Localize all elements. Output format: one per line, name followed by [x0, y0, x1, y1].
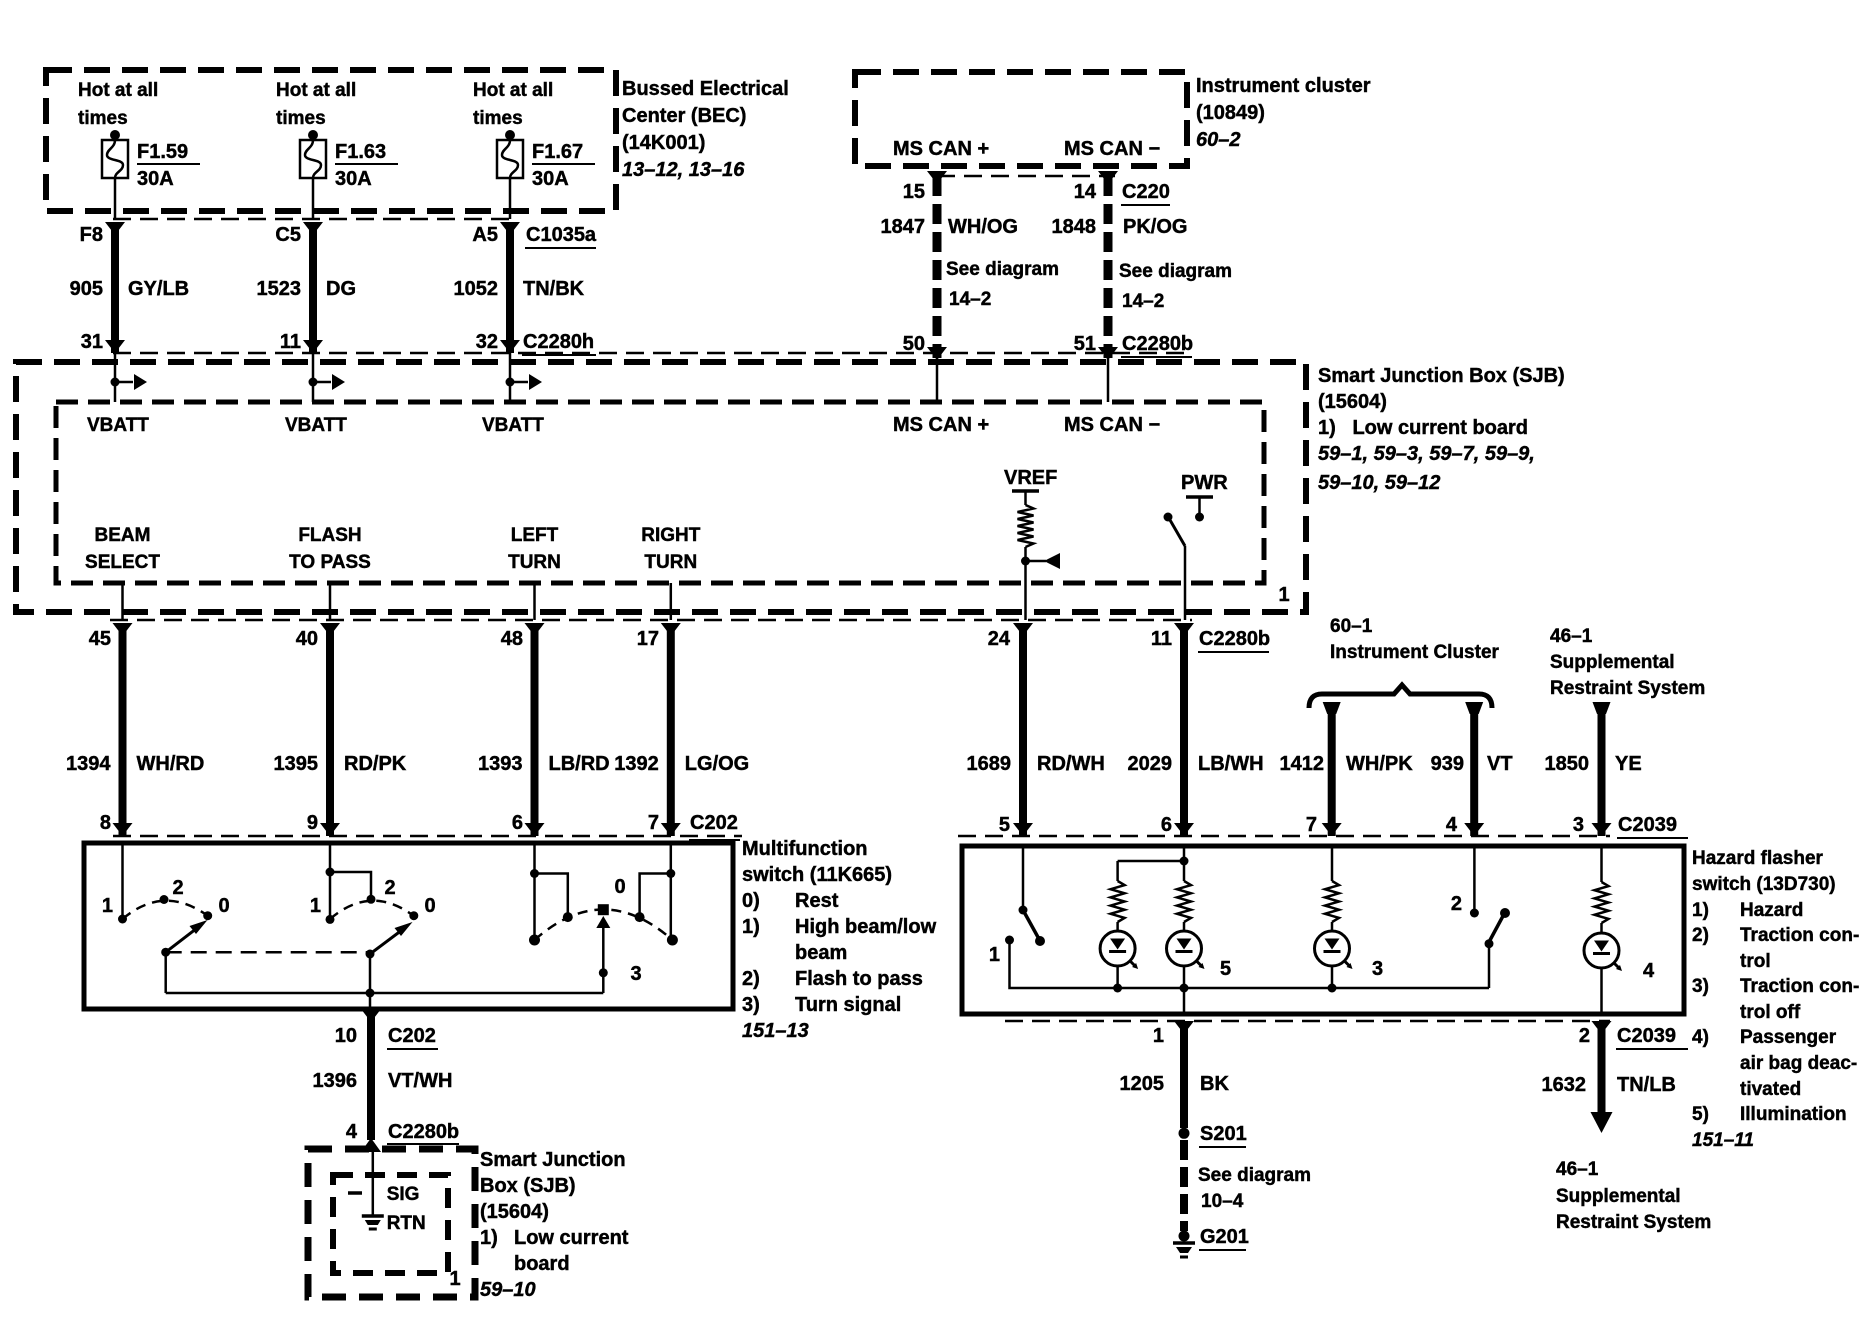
wire 1847 WH/OG (MS CAN +): [927, 171, 947, 360]
svg-text:(15604): (15604): [480, 1201, 549, 1223]
svg-text:24: 24: [988, 628, 1011, 650]
annotation 60-1 Instrument Cluster: [1330, 616, 1500, 663]
svg-text:switch (11K665): switch (11K665): [742, 864, 892, 886]
svg-text:1412: 1412: [1280, 753, 1325, 775]
svg-text:2029: 2029: [1128, 753, 1173, 775]
wire lamp 5 down to pin 1: [1183, 988, 1186, 1014]
wire 1396 VT/WH pin 10: [361, 1009, 381, 1152]
svg-text:50: 50: [903, 333, 925, 355]
wire 1689 RD/WH: [1013, 623, 1033, 836]
resistor (lamp 4): [1595, 882, 1609, 923]
svg-text:times: times: [78, 108, 128, 129]
svg-text:1052: 1052: [454, 278, 499, 300]
annotation 46-1 Supplemental Restraint System (top): [1550, 626, 1705, 699]
label connector C220: [1121, 181, 1170, 205]
svg-text:C2280h: C2280h: [523, 331, 594, 353]
label F1.67 30A value: [532, 141, 595, 190]
label LEFT TURN: [508, 525, 561, 573]
note See diagram 10-4: [1198, 1165, 1311, 1212]
common rail wire (multifunction): [166, 992, 604, 995]
svg-text:(10849): (10849): [1196, 102, 1265, 124]
Hazard flasher switch (13D730) box: [962, 846, 1684, 1014]
annotation Multifunction switch (11K665): [742, 838, 937, 1042]
svg-text:TN/LB: TN/LB: [1617, 1074, 1676, 1096]
blade (hazard switch): [1023, 910, 1045, 946]
svg-text:Instrument Cluster: Instrument Cluster: [1330, 642, 1500, 663]
wire S201 to G201 (shared ground): [1180, 1140, 1188, 1231]
svg-text:1523: 1523: [257, 278, 302, 300]
svg-text:1): 1): [1692, 900, 1709, 921]
svg-text:10–4: 10–4: [1201, 1191, 1244, 1212]
svg-text:Hot at all: Hot at all: [276, 80, 356, 101]
svg-text:switch (13D730): switch (13D730): [1692, 874, 1836, 895]
svg-text:RIGHT: RIGHT: [641, 525, 701, 546]
svg-text:1689: 1689: [967, 753, 1012, 775]
svg-text:Flash to pass: Flash to pass: [795, 968, 923, 990]
connector C2039 dashed line (top): [958, 835, 1610, 838]
connector C2280h / C2280b dashed line: [113, 352, 1192, 355]
label F1.63 30A value: [335, 141, 398, 190]
blade pivot dot (hazard): [1019, 906, 1028, 915]
svg-text:7: 7: [648, 812, 659, 834]
svg-text:(14K001): (14K001): [622, 132, 705, 154]
hazard switch: wire pin 5 to blade: [1022, 846, 1025, 908]
svg-text:5): 5): [1692, 1104, 1709, 1125]
svg-text:1: 1: [989, 944, 1000, 966]
wire 905 GY/LB: [105, 222, 125, 353]
svg-text:4: 4: [346, 1121, 358, 1143]
bracket to instrument cluster: [1309, 685, 1492, 708]
svg-text:9: 9: [307, 812, 318, 834]
wire LEFT TURN to pin 48: [533, 583, 536, 620]
label connector C2280b (sig rtn): [387, 1121, 459, 1144]
wire 1393 LB/RD: [525, 623, 545, 836]
label minus (SIG RTN): [348, 1191, 362, 1195]
wire branch to contact 2 (flash): [330, 872, 371, 897]
svg-text:1) Low current board: 1) Low current board: [1318, 417, 1528, 439]
wire 1052 TN/BK: [500, 222, 520, 353]
Multifunction switch (11K665) box: [84, 843, 733, 1009]
svg-text:Hot at all: Hot at all: [78, 80, 158, 101]
node lamp5 to rail: [1180, 984, 1189, 993]
svg-text:Illumination: Illumination: [1740, 1104, 1847, 1125]
svg-text:RD/PK: RD/PK: [344, 753, 407, 775]
svg-text:BEAM: BEAM: [95, 525, 151, 546]
annotation Instrument cluster (10849) 60-2: [1196, 75, 1371, 151]
svg-text:151–13: 151–13: [742, 1020, 809, 1042]
wire 1850 YE to SRS: [1592, 702, 1612, 836]
label SIG RTN: [387, 1184, 426, 1234]
Smart Junction Box bottom outer dashed box: [308, 1149, 475, 1297]
svg-text:1): 1): [480, 1227, 498, 1249]
svg-text:8: 8: [100, 812, 111, 834]
svg-text:1: 1: [1153, 1025, 1164, 1047]
contact 1 (hazard): [1005, 936, 1014, 945]
node common rail to pin 10: [366, 989, 375, 998]
svg-text:11: 11: [1151, 628, 1172, 650]
svg-text:1396: 1396: [313, 1070, 358, 1092]
svg-text:times: times: [473, 108, 523, 129]
fuse F1.67 30A: [497, 130, 523, 178]
svg-text:Multifunction: Multifunction: [742, 838, 868, 860]
svg-text:2): 2): [742, 968, 760, 990]
annotation Bussed Electrical Center (BEC): [622, 78, 789, 181]
resistor (lamp 5): [1177, 881, 1191, 922]
svg-text:60–2: 60–2: [1196, 129, 1241, 151]
svg-text:Traction con-: Traction con-: [1740, 925, 1859, 946]
svg-text:3): 3): [742, 994, 760, 1016]
label RIGHT TURN: [641, 525, 701, 573]
wire contact1 to internal rail: [1010, 940, 1490, 988]
svg-text:SELECT: SELECT: [85, 552, 160, 573]
svg-text:2: 2: [1451, 893, 1462, 915]
svg-text:6: 6: [1161, 814, 1172, 836]
note See diagram 14-2 (right): [1119, 261, 1232, 312]
svg-text:VBATT: VBATT: [482, 415, 544, 436]
svg-text:3: 3: [630, 963, 641, 985]
node branch flash-to-pass: [326, 868, 335, 877]
Bussed Electrical Center (BEC) box: [46, 70, 616, 211]
contact 0 (flash): [409, 911, 418, 920]
svg-text:RD/WH: RD/WH: [1037, 753, 1105, 775]
svg-text:14–2: 14–2: [949, 289, 991, 310]
wire fuse F1.59 to connector C1035a: [114, 178, 117, 219]
svg-text:0: 0: [424, 895, 435, 917]
svg-text:C1035a: C1035a: [526, 224, 597, 246]
contact 2 (beam select): [160, 895, 169, 904]
svg-text:Supplemental: Supplemental: [1556, 1186, 1681, 1207]
svg-text:2: 2: [172, 877, 183, 899]
lamp 3 (traction control off indicator): [1315, 922, 1353, 988]
svg-text:MS CAN −: MS CAN −: [1064, 138, 1160, 160]
svg-text:TO PASS: TO PASS: [289, 552, 371, 573]
svg-text:2): 2): [1692, 925, 1709, 946]
node pin6 branch: [1180, 857, 1189, 866]
label connector C2280b (bottom): [1198, 628, 1270, 652]
svg-text:GY/LB: GY/LB: [128, 278, 189, 300]
blade (traction switch): [1485, 908, 1511, 948]
lamp 4 (passenger air bag deactivated): [1584, 923, 1622, 1014]
node branch right turn: [666, 869, 675, 878]
PWR terminal and switch (SJB): [1164, 472, 1229, 546]
label F1.59 30A value: [137, 141, 200, 190]
wire pin 3 to lamp 4: [1600, 846, 1603, 882]
svg-text:60–1: 60–1: [1330, 616, 1373, 637]
wire BEAM SELECT to pin 45: [121, 583, 124, 620]
svg-text:Box (SJB): Box (SJB): [480, 1175, 576, 1197]
svg-text:board: board: [514, 1253, 570, 1275]
annotation Smart Junction Box (SJB) right: [1318, 365, 1565, 494]
svg-text:tivated: tivated: [1740, 1079, 1801, 1100]
svg-text:A5: A5: [472, 224, 498, 246]
svg-text:59–1, 59–3, 59–7, 59–9,: 59–1, 59–3, 59–7, 59–9,: [1318, 443, 1535, 465]
svg-text:G201: G201: [1200, 1226, 1249, 1248]
svg-text:31: 31: [81, 331, 103, 353]
wire traction blade to rail: [1488, 944, 1491, 988]
wire MS CAN - through SJB top: [1107, 353, 1110, 402]
switch turn signal: wire pin 6 down: [533, 843, 536, 940]
svg-text:Center (BEC): Center (BEC): [622, 105, 746, 127]
traction control switch: wire pin 4: [1473, 846, 1476, 909]
svg-text:51: 51: [1074, 333, 1096, 355]
svg-text:2: 2: [1579, 1025, 1590, 1047]
contact 3 wiper (turn): [598, 904, 609, 915]
svg-text:C202: C202: [388, 1025, 436, 1047]
svg-text:See diagram: See diagram: [1198, 1165, 1311, 1186]
svg-text:C5: C5: [275, 224, 301, 246]
wire FLASH TO PASS to pin 40: [329, 583, 332, 620]
wire into SIG RTN: [372, 1149, 375, 1210]
svg-text:5: 5: [999, 814, 1010, 836]
fuse F1.59 30A: [102, 130, 128, 178]
wire 1412 WH/PK to instrument cluster: [1322, 702, 1342, 836]
svg-text:14: 14: [1074, 181, 1097, 203]
svg-text:F1.63: F1.63: [335, 141, 386, 163]
wire 939 VT to instrument cluster: [1464, 702, 1484, 836]
svg-text:Passenger: Passenger: [1740, 1027, 1837, 1048]
wire blade1 down to common rail: [164, 952, 167, 993]
svg-text:C2280b: C2280b: [388, 1121, 459, 1143]
svg-text:F1.67: F1.67: [532, 141, 583, 163]
label splice S201: [1199, 1123, 1247, 1147]
arc beam select switch: [123, 901, 209, 919]
svg-text:151–11: 151–11: [1692, 1130, 1754, 1151]
svg-text:VBATT: VBATT: [87, 415, 149, 436]
resistor (lamp 5 left): [1111, 881, 1125, 922]
wiper arrow (turn): [596, 916, 610, 993]
blade flash to pass: [366, 922, 413, 959]
svg-text:S201: S201: [1200, 1123, 1247, 1145]
svg-text:Restraint System: Restraint System: [1556, 1212, 1711, 1233]
contact left-mid (turn): [563, 912, 573, 922]
ground G201: [1173, 1231, 1195, 1258]
svg-text:32: 32: [476, 331, 498, 353]
wire MS CAN + through SJB top: [936, 353, 939, 402]
wire pin 6 through lamp 5: [1183, 846, 1186, 881]
arc turn signal switch: [535, 910, 673, 941]
connector C1035a dashed line: [113, 218, 512, 221]
wire 1848 PK/OG (MS CAN -): [1098, 171, 1118, 360]
svg-text:PWR: PWR: [1181, 472, 1228, 494]
svg-text:RTN: RTN: [387, 1213, 426, 1234]
node splice at x=510 inside SJB: [506, 353, 543, 402]
svg-text:15: 15: [903, 181, 925, 203]
svg-text:1394: 1394: [66, 753, 111, 775]
node lamp left to rail: [1113, 984, 1122, 993]
wire 1523 DG: [303, 222, 323, 353]
switch flash to pass: wire pin 9 to contact 1: [329, 843, 332, 917]
svg-text:1: 1: [310, 895, 321, 917]
wire 2029 LB/WH: [1174, 623, 1194, 836]
svg-text:LB/WH: LB/WH: [1198, 753, 1264, 775]
wire 1395 RD/PK: [320, 623, 340, 836]
label connector C202: [689, 812, 740, 840]
svg-text:Rest: Rest: [795, 890, 839, 912]
svg-text:30A: 30A: [532, 168, 569, 190]
wire 1205 BK: [1174, 1021, 1194, 1128]
svg-text:3: 3: [1573, 814, 1584, 836]
wire common rail down to pin 10: [369, 993, 372, 1009]
svg-text:1: 1: [102, 895, 113, 917]
svg-text:Smart Junction: Smart Junction: [480, 1149, 626, 1171]
svg-text:Smart Junction Box (SJB): Smart Junction Box (SJB): [1318, 365, 1565, 387]
label ground G201: [1199, 1226, 1249, 1250]
connector C220 dashed line: [937, 175, 1115, 178]
svg-text:0: 0: [614, 876, 625, 898]
svg-text:C2280b: C2280b: [1122, 333, 1193, 355]
svg-text:WH/RD: WH/RD: [137, 753, 205, 775]
label connector C2280h: [522, 331, 596, 355]
svg-text:PK/OG: PK/OG: [1123, 216, 1187, 238]
svg-text:4: 4: [1643, 960, 1655, 982]
node branch left turn: [530, 869, 539, 878]
label FLASH TO PASS: [289, 525, 371, 573]
wire pin 7 to lamp 3: [1331, 846, 1334, 881]
contact 1 (beam select): [118, 915, 127, 924]
contact 2 (flash): [367, 895, 376, 904]
wire 1632 TN/LB: [1591, 1021, 1613, 1133]
svg-text:2: 2: [384, 877, 395, 899]
svg-text:11: 11: [280, 331, 301, 353]
svg-text:30A: 30A: [137, 168, 174, 190]
wire branch to left-mid contact: [535, 874, 568, 916]
svg-text:1395: 1395: [274, 753, 319, 775]
wire PWR switch to pin 11: [1184, 546, 1187, 620]
wire 1394 WH/RD: [113, 623, 133, 836]
svg-text:7: 7: [1306, 814, 1317, 836]
ground symbol SIG RTN: [362, 1210, 384, 1229]
svg-text:30A: 30A: [335, 168, 372, 190]
svg-text:LB/RD: LB/RD: [549, 753, 610, 775]
svg-text:TURN: TURN: [508, 552, 561, 573]
svg-text:1848: 1848: [1052, 216, 1097, 238]
svg-text:Hot at all: Hot at all: [473, 80, 553, 101]
wire RIGHT TURN to pin 17: [670, 583, 673, 620]
svg-text:Hazard flasher: Hazard flasher: [1692, 848, 1824, 869]
annotation 46-1 Supplemental Restraint System (bottom): [1556, 1159, 1711, 1233]
svg-text:SIG: SIG: [387, 1184, 420, 1205]
contact 2 (traction): [1470, 909, 1479, 918]
arc flash to pass switch: [330, 901, 414, 919]
svg-text:1850: 1850: [1545, 753, 1590, 775]
svg-text:1205: 1205: [1120, 1073, 1165, 1095]
splice S201: [1179, 1128, 1190, 1139]
svg-text:1): 1): [742, 916, 760, 938]
wire fuse F1.63 to connector C1035a: [312, 178, 315, 219]
Instrument cluster box: [855, 72, 1187, 166]
contact right-mid (turn): [635, 912, 645, 922]
wire blade2 down to common rail: [369, 954, 372, 993]
svg-text:VT: VT: [1487, 753, 1513, 775]
svg-text:C2039: C2039: [1617, 1025, 1676, 1047]
wire 1392 LG/OG: [661, 623, 681, 836]
connector C2280b dashed line (SJB bottom): [110, 619, 1192, 622]
svg-text:TURN: TURN: [644, 552, 697, 573]
svg-text:times: times: [276, 108, 326, 129]
svg-text:WH/PK: WH/PK: [1346, 753, 1413, 775]
svg-text:C2039: C2039: [1618, 814, 1677, 836]
svg-text:Bussed Electrical: Bussed Electrical: [622, 78, 789, 100]
node lamp3 to rail: [1328, 984, 1337, 993]
svg-text:3): 3): [1692, 976, 1709, 997]
svg-text:VBATT: VBATT: [285, 415, 347, 436]
VREF terminal and resistor: [1004, 467, 1060, 569]
blade beam select: [161, 920, 207, 957]
switch beam select: wire pin 8 to contact 1: [121, 843, 124, 917]
svg-text:MS CAN +: MS CAN +: [893, 414, 989, 436]
svg-text:1393: 1393: [478, 753, 523, 775]
svg-text:LEFT: LEFT: [511, 525, 559, 546]
label connector C2280b (top): [1121, 333, 1193, 357]
connector C202 dashed line: [113, 835, 742, 838]
svg-text:air bag deac-: air bag deac-: [1740, 1053, 1857, 1074]
contact right end (turn): [667, 935, 678, 946]
svg-text:See diagram: See diagram: [946, 259, 1059, 280]
svg-text:WH/OG: WH/OG: [948, 216, 1018, 238]
label BEAM SELECT: [85, 525, 160, 573]
svg-text:46–1: 46–1: [1550, 626, 1593, 647]
svg-text:F1.59: F1.59: [137, 141, 188, 163]
contact left end (turn): [529, 935, 540, 946]
svg-text:BK: BK: [1200, 1073, 1229, 1095]
svg-text:59–10, 59–12: 59–10, 59–12: [1318, 472, 1440, 494]
resistor (lamp 3): [1325, 881, 1339, 922]
svg-text:trol off: trol off: [1740, 1002, 1801, 1023]
svg-text:1632: 1632: [1542, 1074, 1587, 1096]
label connector C1035a: [525, 224, 597, 248]
svg-text:10: 10: [335, 1025, 357, 1047]
contact 0 (beam select): [203, 911, 212, 920]
switch turn signal: wire pin 7 down: [670, 843, 673, 940]
contact 1 (flash): [326, 915, 335, 924]
node splice at x=313 inside SJB: [309, 353, 346, 402]
illumination lamp branch (left): [1118, 861, 1184, 881]
svg-text:939: 939: [1431, 753, 1464, 775]
svg-text:40: 40: [296, 628, 318, 650]
svg-text:VREF: VREF: [1004, 467, 1057, 489]
svg-text:See diagram: See diagram: [1119, 261, 1232, 282]
svg-text:905: 905: [70, 278, 103, 300]
svg-text:1: 1: [1278, 584, 1289, 606]
svg-text:Supplemental: Supplemental: [1550, 652, 1675, 673]
svg-text:46–1: 46–1: [1556, 1159, 1599, 1180]
wire VREF to pin 24: [1024, 561, 1027, 620]
svg-text:5: 5: [1220, 958, 1231, 980]
note See diagram 14-2 (left): [946, 259, 1059, 310]
annotation Hazard flasher switch (13D730): [1692, 848, 1859, 1151]
svg-text:1847: 1847: [881, 216, 926, 238]
svg-text:13–12, 13–16: 13–12, 13–16: [622, 159, 745, 181]
svg-text:Traction con-: Traction con-: [1740, 976, 1859, 997]
svg-text:F8: F8: [80, 224, 103, 246]
svg-text:59–10: 59–10: [480, 1279, 536, 1301]
node splice at x=115 inside SJB: [111, 353, 148, 402]
wire fuse F1.67 to connector C1035a: [509, 178, 512, 219]
lamp left (illumination): [1100, 922, 1138, 988]
svg-text:VT/WH: VT/WH: [388, 1070, 452, 1092]
svg-text:C220: C220: [1122, 181, 1170, 203]
svg-text:TN/BK: TN/BK: [523, 278, 585, 300]
svg-text:C202: C202: [690, 812, 738, 834]
fuse F1.63 30A: [300, 130, 326, 178]
svg-text:1392: 1392: [614, 753, 659, 775]
svg-text:Hazard: Hazard: [1740, 900, 1803, 921]
SJB inner dashed box (low current board): [56, 402, 1264, 583]
label connector C2039 (top): [1617, 814, 1688, 838]
SJB bottom inner dashed box: [333, 1175, 448, 1273]
svg-text:Low current: Low current: [514, 1227, 629, 1249]
connector C2039 dashed line (bottom): [1005, 1020, 1610, 1023]
